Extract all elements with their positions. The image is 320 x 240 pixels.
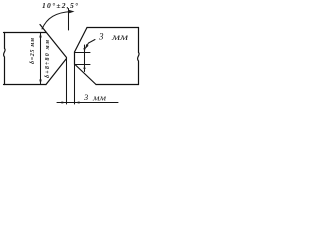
svg-text:10°±2,5°: 10°±2,5° bbox=[42, 1, 78, 10]
right plate bottom edge bbox=[96, 84, 139, 86]
root face upper tick bbox=[75, 52, 91, 54]
right plate upper bevel bbox=[75, 28, 88, 53]
arrowhead thickness top bbox=[39, 33, 41, 38]
left plate left edge with break bbox=[4, 33, 6, 85]
arrowhead gap right bbox=[75, 101, 80, 103]
gap dimension line / shelf bbox=[57, 102, 118, 104]
right plate lower bevel bbox=[75, 65, 96, 85]
svg-text:3: 3 bbox=[98, 32, 104, 42]
left plate upper bevel (extended above for angle dimension) bbox=[40, 25, 67, 58]
arrowhead leader right 3mm bbox=[86, 44, 89, 49]
right plate right edge with break bbox=[138, 28, 140, 85]
arrowhead gap left bbox=[62, 101, 67, 103]
angle dimension arc bbox=[42, 12, 71, 30]
thickness dimension line left bbox=[40, 33, 42, 84]
arrowhead arc end bbox=[69, 10, 75, 13]
angle dimension vertical ray bbox=[68, 9, 70, 31]
left plate bottom edge bbox=[4, 84, 47, 86]
left plate top edge bbox=[4, 32, 47, 34]
right plate top edge bbox=[87, 27, 139, 29]
svg-text:δ=25 мм: δ=25 мм bbox=[30, 38, 36, 64]
arrowhead root face bottom bbox=[83, 65, 85, 70]
right plate root face bbox=[74, 52, 76, 65]
left plate lower bevel bbox=[46, 59, 67, 85]
svg-text:3: 3 bbox=[83, 92, 88, 102]
gap extension line right bbox=[74, 65, 76, 105]
gap extension line left bbox=[66, 58, 68, 104]
arrowhead root face top bbox=[83, 48, 85, 53]
root face dimension line bbox=[84, 45, 86, 72]
svg-text:δ+8÷80 мм: δ+8÷80 мм bbox=[45, 40, 51, 78]
svg-text:мм: мм bbox=[111, 32, 129, 42]
leader line for right 3mm label bbox=[86, 40, 96, 49]
svg-text:мм: мм bbox=[92, 93, 107, 103]
arrowhead thickness bottom bbox=[39, 80, 41, 85]
root face lower tick bbox=[75, 64, 91, 66]
